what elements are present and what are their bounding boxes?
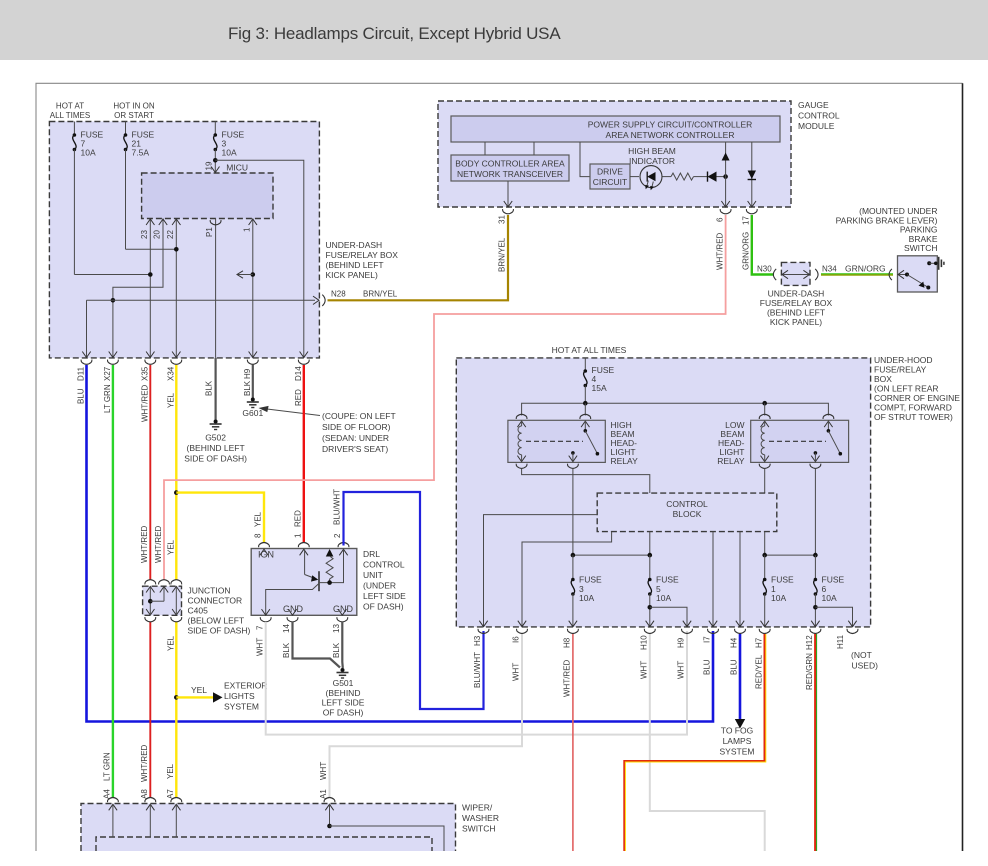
svg-text:RED/YEL: RED/YEL — [754, 654, 763, 689]
svg-text:WHT/RED: WHT/RED — [140, 744, 149, 782]
wire WHT I6 to A1 — [330, 634, 523, 797]
wire K1 switch out to fuse bus — [572, 469, 574, 556]
svg-text:KICK PANEL): KICK PANEL) — [326, 270, 378, 280]
wire base to pin7 — [266, 583, 319, 614]
svg-text:1: 1 — [294, 533, 303, 538]
svg-text:YEL: YEL — [166, 392, 175, 408]
svg-text:(NOT: (NOT — [851, 650, 872, 660]
svg-text:(BEHIND LEFT: (BEHIND LEFT — [767, 308, 825, 318]
svg-text:A1: A1 — [319, 789, 328, 799]
fuse 3 10A — [572, 555, 574, 579]
svg-text:YEL: YEL — [166, 539, 175, 555]
svg-text:BLOCK: BLOCK — [673, 509, 702, 519]
svg-text:A4: A4 — [103, 789, 112, 799]
wire BLU D11 to I7 — [87, 365, 714, 722]
svg-text:D11: D11 — [77, 366, 86, 381]
relay K2 dashed link — [769, 440, 826, 442]
wire K2 switch out to fuse bus — [814, 469, 816, 556]
wire RED/YEL H7 down — [624, 634, 764, 851]
wire YEL X34 to C405 — [175, 365, 177, 580]
svg-text:BLK: BLK — [205, 380, 214, 396]
svg-text:OF DASH): OF DASH) — [323, 707, 364, 717]
pin A1 — [324, 798, 335, 811]
fuse 21 7.5A — [125, 122, 127, 136]
wire K1 coil to control block — [522, 469, 650, 494]
svg-text:JUNCTION: JUNCTION — [188, 586, 231, 596]
wire WHT/RED gauge pin6 to C405 — [164, 215, 726, 580]
svg-text:8: 8 — [254, 533, 263, 538]
node YEL branch to DRL — [174, 490, 179, 495]
pin A8 — [145, 798, 156, 811]
svg-text:X34: X34 — [166, 366, 175, 381]
svg-text:WHT: WHT — [319, 762, 328, 780]
svg-text:UNDER-DASH: UNDER-DASH — [326, 240, 383, 250]
svg-text:N34: N34 — [822, 265, 837, 274]
node YEL exterior branch — [174, 695, 179, 700]
resistor R1 — [326, 549, 334, 557]
wire top bus — [522, 403, 829, 415]
DRL bottom pins 7,14,13 — [260, 609, 271, 622]
svg-text:BRN/YEL: BRN/YEL — [498, 237, 507, 272]
svg-text:(ON LEFT REAR: (ON LEFT REAR — [874, 384, 939, 394]
svg-text:USED): USED) — [852, 661, 879, 671]
svg-text:WHT/RED: WHT/RED — [715, 232, 724, 270]
svg-text:HOT AT ALL TIMES: HOT AT ALL TIMES — [552, 345, 627, 355]
pin 1 — [252, 219, 254, 358]
svg-text:H3: H3 — [473, 635, 482, 646]
under-hood fuse/relay box — [456, 358, 870, 627]
wire WHT/RED X35 to C405 — [149, 365, 151, 580]
svg-text:I6: I6 — [512, 636, 521, 643]
svg-text:13: 13 — [332, 624, 341, 633]
svg-text:LT GRN: LT GRN — [103, 384, 112, 413]
svg-text:SYSTEM: SYSTEM — [224, 702, 259, 712]
relay K2 switch — [827, 421, 829, 431]
wire RED/GRN H12 down — [814, 634, 816, 851]
svg-text:CONTROL: CONTROL — [666, 499, 708, 509]
svg-text:WASHER: WASHER — [462, 813, 499, 823]
svg-text:X35: X35 — [140, 366, 149, 381]
fuse 4 15A — [584, 358, 586, 371]
svg-text:10A: 10A — [579, 593, 594, 603]
wire N28 bus — [87, 299, 316, 301]
wire control block to I6 — [522, 532, 612, 627]
svg-text:RED: RED — [294, 510, 303, 527]
wire fuse7 to pin23 line — [74, 274, 150, 276]
svg-text:(SEDAN: UNDER: (SEDAN: UNDER — [322, 433, 389, 443]
svg-text:UNIT: UNIT — [363, 570, 383, 580]
svg-text:CIRCUIT: CIRCUIT — [593, 177, 627, 187]
svg-text:G601: G601 — [242, 408, 263, 418]
svg-text:ALL TIMES: ALL TIMES — [50, 111, 90, 120]
svg-text:A7: A7 — [166, 789, 175, 799]
power supply circuit/CAN controller U2 — [451, 116, 780, 142]
ground G502 — [210, 420, 222, 430]
pin 6 — [720, 201, 731, 214]
svg-text:UNDER-DASH: UNDER-DASH — [768, 289, 825, 299]
wire fuse21 to pin22 line — [126, 248, 177, 250]
connector N28 (right edge exit) — [313, 296, 319, 304]
wire control block to fuse bus 3/5 — [649, 532, 651, 556]
high beam headlight relay K1 — [508, 420, 605, 462]
svg-text:AREA NETWORK CONTROLLER: AREA NETWORK CONTROLLER — [606, 130, 735, 140]
svg-text:CONTROL: CONTROL — [363, 560, 405, 570]
wire LT GRN X27 to A4 — [112, 365, 114, 797]
pin 31 — [507, 181, 509, 207]
svg-text:H9: H9 — [677, 637, 686, 648]
svg-text:TO FOG: TO FOG — [721, 726, 753, 736]
node X27 branch — [111, 298, 116, 303]
fuse 6 10A — [814, 555, 816, 579]
wire WHT/RED H8 down — [572, 634, 574, 851]
pin 22 — [175, 219, 177, 358]
wire RED D14 to DRL pin1 — [303, 365, 305, 542]
svg-text:SIDE OF DASH): SIDE OF DASH) — [188, 626, 251, 636]
svg-text:FUSE/RELAY BOX: FUSE/RELAY BOX — [326, 250, 399, 260]
svg-text:WHT: WHT — [512, 663, 521, 681]
svg-text:GRN/ORG: GRN/ORG — [845, 264, 886, 274]
under-dash bottom connectors — [81, 352, 92, 365]
wire control block to fuse bus 1/6 — [764, 532, 766, 556]
svg-text:20: 20 — [153, 230, 162, 239]
svg-text:(BEHIND LEFT: (BEHIND LEFT — [187, 443, 245, 453]
svg-text:WHT: WHT — [255, 638, 264, 656]
svg-text:INDICATOR: INDICATOR — [629, 156, 675, 166]
svg-text:BLK: BLK — [243, 380, 252, 396]
inner switch box — [96, 837, 432, 851]
svg-text:MODULE: MODULE — [798, 121, 835, 131]
low beam headlight relay K2 — [751, 420, 849, 462]
svg-text:SYSTEM: SYSTEM — [720, 747, 755, 757]
svg-text:GRN/ORG: GRN/ORG — [742, 232, 751, 270]
node fuse5 split — [648, 605, 653, 610]
svg-text:RELAY: RELAY — [611, 456, 639, 466]
node fuse3 branch — [213, 158, 218, 163]
svg-text:CONTROL: CONTROL — [798, 111, 840, 121]
wire resistor to pin2 — [319, 550, 344, 583]
pin A4 — [107, 798, 118, 811]
svg-text:BLU: BLU — [703, 659, 712, 675]
wire inside wiper switch — [327, 824, 332, 829]
svg-text:LEFT SIDE: LEFT SIDE — [363, 591, 406, 601]
pin 20 — [113, 219, 163, 358]
title band — [0, 0, 988, 60]
svg-text:YEL: YEL — [166, 635, 175, 651]
svg-text:N28: N28 — [331, 290, 346, 299]
svg-text:WHT/RED: WHT/RED — [140, 525, 149, 563]
svg-text:BLU: BLU — [77, 388, 86, 404]
wire BLK pin13 to G501 — [341, 622, 344, 668]
svg-text:FUSE/RELAY: FUSE/RELAY — [874, 365, 927, 375]
svg-text:SIDE OF DASH): SIDE OF DASH) — [184, 454, 247, 464]
wire YEL branch to DRL pin8 — [176, 493, 264, 542]
svg-text:COMPT, FORWARD: COMPT, FORWARD — [874, 403, 952, 413]
svg-text:BRN/YEL: BRN/YEL — [363, 290, 398, 299]
svg-text:DRIVER'S SEAT): DRIVER'S SEAT) — [322, 444, 388, 454]
wire YEL to exterior lights — [176, 696, 213, 698]
wire control block to I7 — [712, 532, 714, 627]
node pin6/diode junction — [723, 174, 728, 179]
relay K1 coil — [518, 426, 522, 455]
svg-text:(COUPE: ON LEFT: (COUPE: ON LEFT — [322, 411, 396, 421]
svg-text:HOT AT: HOT AT — [56, 102, 84, 111]
svg-text:RELAY: RELAY — [717, 456, 745, 466]
wire BLU H4 to fog lamps — [739, 634, 742, 720]
svg-text:15A: 15A — [592, 383, 607, 393]
svg-text:2: 2 — [333, 533, 342, 538]
wire pin6 up to controller — [725, 142, 727, 207]
wire GRN/ORG N34 to parking brake switch — [821, 273, 893, 276]
svg-text:HIGH BEAM: HIGH BEAM — [628, 146, 676, 156]
svg-text:G502: G502 — [205, 433, 226, 443]
pin 23 — [149, 219, 151, 358]
relay K2 coil — [761, 426, 765, 455]
wire links power supply to transceiver — [484, 142, 486, 155]
svg-text:LAMPS: LAMPS — [723, 736, 752, 746]
svg-text:1: 1 — [243, 227, 252, 232]
DRL control unit — [251, 549, 357, 616]
svg-text:(UNDER: (UNDER — [363, 581, 396, 591]
diode D1 — [707, 172, 709, 182]
svg-text:LEFT SIDE: LEFT SIDE — [322, 698, 365, 708]
resistor R2 — [663, 176, 672, 178]
wire fuse5 to H9 — [650, 607, 687, 627]
svg-text:GAUGE: GAUGE — [798, 100, 829, 110]
svg-text:OR START: OR START — [114, 111, 154, 120]
svg-text:19: 19 — [205, 161, 214, 170]
svg-text:BLU/WHT: BLU/WHT — [473, 652, 482, 688]
svg-text:POWER SUPPLY CIRCUIT/CONTROLLE: POWER SUPPLY CIRCUIT/CONTROLLER — [588, 120, 753, 130]
svg-text:H10: H10 — [640, 635, 649, 650]
svg-text:P1: P1 — [205, 227, 214, 237]
svg-text:H9: H9 — [243, 368, 252, 379]
wire WHT DRL pin7 to H9 — [266, 622, 687, 735]
wire fuse6 to H11 — [815, 607, 852, 627]
pin 19 (MICU top) — [211, 167, 219, 173]
fuse bus 3/5 — [573, 554, 650, 556]
svg-text:YEL: YEL — [166, 763, 175, 779]
pin A7 — [171, 798, 182, 811]
wiper/washer switch — [81, 804, 456, 852]
svg-text:10A: 10A — [81, 148, 96, 158]
svg-text:NETWORK TRANSCEIVER: NETWORK TRANSCEIVER — [457, 169, 563, 179]
svg-text:WHT/RED: WHT/RED — [140, 384, 149, 422]
svg-text:YEL: YEL — [191, 685, 207, 695]
svg-text:FUSE/RELAY BOX: FUSE/RELAY BOX — [760, 298, 833, 308]
svg-text:BLK: BLK — [332, 642, 341, 658]
fuse 3 10A — [214, 122, 216, 136]
svg-text:31: 31 — [498, 215, 507, 224]
svg-text:UNDER-HOOD: UNDER-HOOD — [874, 355, 933, 365]
svg-text:HOT IN ON: HOT IN ON — [113, 102, 154, 111]
relay K1 dashed link — [526, 440, 583, 442]
connector N34 — [815, 269, 818, 280]
pin 2 — [338, 543, 349, 556]
svg-text:YEL: YEL — [254, 511, 263, 527]
svg-text:WIPER/: WIPER/ — [462, 803, 493, 813]
svg-text:WHT/RED: WHT/RED — [563, 659, 572, 697]
wire WHT H10 down — [650, 634, 765, 851]
svg-text:RED/GRN: RED/GRN — [805, 653, 814, 690]
node pin1 stub arrow — [251, 272, 256, 277]
body controller area network transceiver U3 — [451, 155, 569, 181]
annotation coupe/sedan — [267, 409, 320, 416]
pin P1 — [215, 219, 217, 358]
fuse bus 1/6 — [765, 554, 816, 556]
MICU — [142, 173, 273, 219]
svg-text:H8: H8 — [563, 637, 572, 648]
svg-text:C405: C405 — [188, 606, 209, 616]
svg-text:23: 23 — [140, 230, 149, 239]
svg-text:WHT/RED: WHT/RED — [154, 525, 163, 563]
svg-text:DRL: DRL — [363, 549, 380, 559]
pin 8 — [259, 543, 270, 556]
svg-text:WHT: WHT — [640, 661, 649, 679]
pin 17 — [746, 201, 757, 214]
svg-text:EXTERIOR: EXTERIOR — [224, 681, 267, 691]
svg-text:H4: H4 — [730, 637, 739, 648]
svg-text:14: 14 — [282, 624, 291, 633]
svg-text:Fig 3: Headlamps Circuit, Exce: Fig 3: Headlamps Circuit, Except Hybrid … — [228, 24, 561, 43]
fuse 7 10A — [73, 122, 75, 136]
svg-text:7: 7 — [255, 625, 264, 630]
svg-text:10A: 10A — [771, 593, 786, 603]
wire BLK pin14 to G501 — [293, 622, 341, 668]
svg-text:10A: 10A — [656, 593, 671, 603]
ground (parking brake, chassis) — [939, 257, 944, 270]
svg-text:GND: GND — [333, 604, 354, 614]
svg-text:BLU: BLU — [730, 659, 739, 675]
node fuse6 split — [813, 605, 818, 610]
wire BLU/WHT DRL pin2 to H3 — [344, 492, 484, 709]
wire YEL C405 to A7 — [175, 622, 177, 798]
svg-text:N30: N30 — [757, 265, 772, 274]
svg-text:MICU: MICU — [226, 163, 248, 173]
svg-text:WHT: WHT — [677, 661, 686, 679]
svg-text:SIDE OF FLOOR): SIDE OF FLOOR) — [322, 422, 391, 432]
svg-text:H12: H12 — [805, 635, 814, 650]
svg-text:17: 17 — [742, 216, 751, 225]
wire BRN/YEL N28 to gauge pin31 — [328, 215, 509, 300]
svg-text:22: 22 — [166, 230, 175, 239]
svg-text:RED: RED — [294, 389, 303, 406]
svg-text:A8: A8 — [140, 789, 149, 799]
pin 1 — [298, 543, 309, 556]
svg-text:BLU/WHT: BLU/WHT — [333, 489, 342, 525]
under-hood bottom connectors — [478, 621, 489, 634]
wire through pass-through box — [781, 274, 810, 276]
relay K1 switch — [584, 421, 586, 431]
svg-text:7.5A: 7.5A — [132, 148, 150, 158]
svg-text:OF STRUT TOWER): OF STRUT TOWER) — [874, 412, 953, 422]
svg-text:DRIVE: DRIVE — [597, 167, 623, 177]
svg-text:6: 6 — [715, 217, 724, 222]
svg-text:LIGHTS: LIGHTS — [224, 691, 255, 701]
svg-text:D14: D14 — [294, 366, 303, 381]
wire fuse3 to D14 — [215, 160, 303, 358]
svg-text:CONNECTOR: CONNECTOR — [188, 596, 243, 606]
transistor Q1 — [304, 550, 306, 575]
control block — [597, 493, 777, 531]
fuse 1 10A — [764, 555, 766, 579]
svg-text:I7: I7 — [703, 636, 712, 643]
wire K2 coil to control block — [764, 469, 766, 494]
svg-text:10A: 10A — [822, 593, 837, 603]
svg-text:LT GRN: LT GRN — [103, 752, 112, 781]
wire control block to H3 — [484, 515, 598, 627]
svg-text:G501: G501 — [333, 678, 354, 688]
svg-text:X27: X27 — [103, 366, 112, 381]
diode D2 on pin17 wire — [751, 142, 753, 207]
under-dash fuse/relay box — [49, 122, 319, 358]
wire control block to H4 — [739, 532, 741, 627]
svg-text:OF DASH): OF DASH) — [363, 602, 404, 612]
high beam indicator lamp DS1 — [630, 176, 639, 178]
svg-text:GND: GND — [283, 604, 304, 614]
svg-text:SWITCH: SWITCH — [462, 824, 496, 834]
svg-text:(BEHIND: (BEHIND — [326, 688, 361, 698]
svg-text:KICK PANEL): KICK PANEL) — [770, 317, 822, 327]
svg-text:H7: H7 — [754, 637, 763, 648]
drive circuit U4 — [580, 142, 590, 177]
svg-text:BOX: BOX — [874, 374, 892, 384]
wire WHT/RED C405 to A8 — [149, 622, 151, 798]
under-dash fuse/relay box (pass-through) — [781, 262, 810, 285]
ground G601 — [247, 398, 259, 408]
svg-text:H11: H11 — [836, 634, 845, 649]
wire GRN/ORG pin17 to N30 — [752, 215, 774, 275]
junction connector C405 — [143, 586, 182, 615]
parking brake switch S1 — [898, 256, 938, 292]
svg-text:BODY CONTROLLER AREA: BODY CONTROLLER AREA — [455, 159, 565, 169]
svg-text:(BELOW LEFT: (BELOW LEFT — [188, 616, 245, 626]
svg-text:SWITCH: SWITCH — [904, 243, 938, 253]
svg-text:CORNER OF ENGINE: CORNER OF ENGINE — [874, 393, 960, 403]
fuse 5 10A — [649, 555, 651, 579]
connector N30 — [773, 269, 776, 280]
gauge control module — [438, 101, 791, 207]
ground G501 — [337, 668, 349, 678]
svg-text:(BEHIND LEFT: (BEHIND LEFT — [326, 260, 384, 270]
svg-text:10A: 10A — [222, 148, 237, 158]
svg-text:BLK: BLK — [282, 642, 291, 658]
wire BLK H9 to G601 — [252, 365, 254, 399]
